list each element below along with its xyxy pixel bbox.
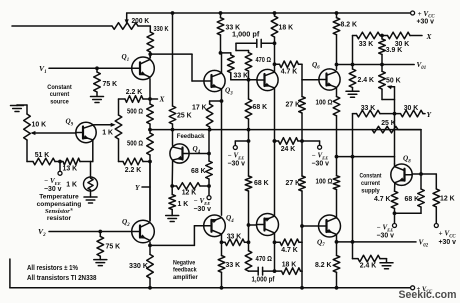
ground below 2.4K upper <box>346 91 359 97</box>
svg-text:1,000 pf: 1,000 pf <box>252 276 276 283</box>
text constant current source <box>47 84 72 106</box>
svg-text:8.2 K: 8.2 K <box>341 21 357 28</box>
label V02 <box>419 239 429 249</box>
node X wire stub <box>148 97 157 101</box>
wire 330K to Q1 collector node <box>148 52 152 58</box>
wire V01 row <box>337 63 415 67</box>
svg-text:All transistors TI 2N338: All transistors TI 2N338 <box>27 275 97 282</box>
label feedback <box>177 133 205 140</box>
svg-text:200 K: 200 K <box>132 18 150 25</box>
svg-text:All resistors ± 1%: All resistors ± 1% <box>27 265 79 272</box>
svg-text:+30 v: +30 v <box>439 239 457 246</box>
wire Q9 collector to 1K wiper <box>93 123 116 127</box>
svg-text:1,000 pf: 1,000 pf <box>232 31 260 38</box>
svg-text:33 K: 33 K <box>227 234 242 241</box>
svg-text:12 K: 12 K <box>182 189 197 196</box>
text tolerance note <box>27 265 97 282</box>
label -VEE center-right <box>312 152 330 168</box>
label Q9 <box>66 118 74 128</box>
wire column to bottom rail <box>300 271 304 290</box>
label Q2 <box>122 218 130 228</box>
node feedback bus left <box>148 128 152 132</box>
label V2 <box>38 227 46 238</box>
wire Q5 emitter column <box>273 89 277 216</box>
resistor 8.2K top <box>333 11 357 69</box>
svg-text:33 K: 33 K <box>361 105 376 112</box>
resistor 33K top-rail <box>217 11 240 53</box>
resistor 27K lower <box>286 176 306 228</box>
resistor 4.7K current supply <box>374 183 398 215</box>
svg-text:25 K: 25 K <box>381 120 396 127</box>
svg-text:100 Ω: 100 Ω <box>316 178 333 185</box>
svg-text:27 K: 27 K <box>286 102 301 109</box>
label node X <box>159 95 166 104</box>
wire coupling row <box>335 114 395 164</box>
svg-text:330 K: 330 K <box>154 26 169 33</box>
wire Q1 collector node to Q3 base <box>150 54 204 81</box>
label -VEE source <box>44 177 62 193</box>
potentiometer 10K <box>24 114 76 140</box>
resistor 33K X-row <box>357 32 381 48</box>
svg-text:51 K: 51 K <box>35 152 50 159</box>
svg-text:Temperature: Temperature <box>39 194 79 201</box>
resistor 2.2K upper <box>119 89 151 102</box>
label Q4 feedback <box>193 145 201 155</box>
resistor 68K upper <box>245 80 267 130</box>
wire Q8 collector <box>394 164 396 167</box>
resistor 17K <box>192 104 213 130</box>
wire Q6 base <box>302 79 319 81</box>
transistor Q4 feedback <box>170 144 189 163</box>
resistor 68K lower <box>245 176 268 227</box>
svg-text:100 Ω: 100 Ω <box>316 100 333 107</box>
label Q4 lower <box>226 214 234 224</box>
svg-text:+30 v: +30 v <box>417 19 435 26</box>
wire Q4 emitter <box>170 160 174 188</box>
node V2 input wire <box>49 230 132 234</box>
resistor 68K current supply <box>395 174 425 213</box>
wire column to 18K lower <box>301 242 303 271</box>
svg-text:33 K: 33 K <box>226 262 241 269</box>
transistor Q5 upper <box>257 69 278 90</box>
resistor 500 ohm upper <box>127 99 153 130</box>
svg-text:68 K: 68 K <box>191 168 206 175</box>
label node Y <box>135 183 141 192</box>
text negative feedback amplifier <box>173 259 198 281</box>
resistor 330K upper <box>147 26 169 52</box>
terminal +VCC top <box>411 10 436 26</box>
svg-text:Constant: Constant <box>47 84 72 91</box>
svg-text:8.2 K: 8.2 K <box>315 262 331 269</box>
svg-text:33 K: 33 K <box>234 73 249 80</box>
svg-text:Constant: Constant <box>360 173 383 180</box>
terminal -VEE source <box>58 162 62 176</box>
svg-text:4.7 K: 4.7 K <box>281 247 297 254</box>
transistor Q5 lower <box>257 214 279 236</box>
transistor Q8 <box>391 164 412 185</box>
wire ladder to Q2 collector <box>149 162 151 221</box>
watermark <box>399 289 457 301</box>
wire 33K-Y column to V02 <box>352 157 354 242</box>
wire Q4 lower collector <box>220 234 224 244</box>
resistor 330K lower <box>129 245 153 287</box>
label V01 <box>417 61 427 71</box>
ground right of 2.4K lower <box>380 259 393 269</box>
wire Q5 base row <box>231 78 257 82</box>
resistor 1K emitter pot <box>102 99 122 139</box>
potentiometer 200K <box>112 13 149 29</box>
svg-text:2.2 K: 2.2 K <box>126 89 142 96</box>
wire top rail <box>127 12 411 14</box>
wire 27K column lower <box>301 141 303 176</box>
resistor 25K bias <box>372 120 421 174</box>
node -VEE tap junction <box>55 160 63 164</box>
resistor 4.7K lower <box>273 239 302 254</box>
svg-text:−30 v: −30 v <box>228 161 246 168</box>
sensistor 1K temperature compensating <box>66 162 97 192</box>
svg-text:amplifier: amplifier <box>173 274 198 281</box>
wire column B to 470 lower <box>248 225 250 251</box>
label Q3 <box>225 87 233 97</box>
svg-text:75 K: 75 K <box>103 81 118 88</box>
resistor 13K <box>63 158 93 172</box>
svg-text:68 K: 68 K <box>253 104 268 111</box>
resistor 30K Y-row <box>395 105 426 117</box>
svg-text:1 K: 1 K <box>178 201 189 208</box>
node V01 at Q6 collector <box>335 63 339 67</box>
resistor 100 ohm lower <box>316 157 340 218</box>
svg-text:17 K: 17 K <box>192 105 207 112</box>
svg-text:330 K: 330 K <box>129 263 148 270</box>
svg-text:500 Ω: 500 Ω <box>127 109 143 116</box>
wire column 17K node down <box>208 130 210 161</box>
wire Q3 emitter <box>220 89 224 103</box>
label -VEE feedback <box>194 197 212 213</box>
transistor Q1 <box>132 57 155 80</box>
wire feedback bus <box>150 128 421 132</box>
resistor 470 ohm upper <box>245 53 271 80</box>
transistor Q6 <box>319 69 340 90</box>
capacitor 1000pf upper <box>232 31 275 47</box>
wire Y-row left <box>353 113 357 115</box>
svg-text:470 Ω: 470 Ω <box>256 57 272 64</box>
wire column B mid <box>247 130 251 176</box>
label Q6 <box>312 61 320 71</box>
resistor 18K lower <box>273 261 302 274</box>
wire 1K bottom to 2.2K lower <box>119 139 124 162</box>
svg-text:13 K: 13 K <box>63 165 78 172</box>
wire top rail to 25K <box>171 11 175 106</box>
potentiometer 50K <box>379 65 401 114</box>
wire X-row left drop <box>353 36 357 65</box>
label -VEE center-left <box>228 152 246 168</box>
svg-text:18 K: 18 K <box>282 261 297 268</box>
wire Q5 lower base <box>249 224 257 226</box>
svg-text:Seekic.com: Seekic.com <box>399 289 457 301</box>
transistor Q3 <box>204 70 225 91</box>
wire 25K column to Q4 collector <box>172 130 174 146</box>
node 3.9K junction <box>380 34 388 38</box>
resistor 2.2K lower <box>123 158 152 174</box>
transistor Q7 <box>319 215 341 237</box>
resistor 33K horizontal lower <box>222 234 251 246</box>
svg-text:Feedback: Feedback <box>177 133 205 140</box>
wire bottom rail <box>10 259 411 290</box>
transistor Q4 lower <box>204 215 226 237</box>
resistor 12K current supply <box>433 174 455 223</box>
svg-text:1 K: 1 K <box>102 130 113 137</box>
resistor 33K Q5 base <box>221 53 249 80</box>
svg-text:10 K: 10 K <box>32 122 47 129</box>
label V1 <box>39 64 47 75</box>
svg-text:−30 v: −30 v <box>312 161 330 168</box>
resistor 24K <box>273 138 304 153</box>
terminal -VEE center-left <box>233 141 248 150</box>
resistor 25K vertical <box>169 106 191 130</box>
wire Q5 collector <box>273 43 277 71</box>
resistor 1K feedback <box>169 186 188 210</box>
label Q1 <box>122 53 130 63</box>
ground above 10K <box>11 105 28 114</box>
resistor 51K <box>27 140 55 165</box>
svg-text:24 K: 24 K <box>281 146 296 153</box>
wire 200K to 330K <box>138 26 150 32</box>
ground below 1K feedback <box>166 210 179 222</box>
resistor 4.7K upper <box>275 61 303 80</box>
capacitor 1000pf lower <box>249 267 276 283</box>
svg-text:27 K: 27 K <box>286 180 301 187</box>
wire Q7 base <box>302 225 318 227</box>
resistor 75K input 1 <box>94 68 117 92</box>
wire input top-left <box>12 25 112 27</box>
svg-text:68 K: 68 K <box>254 180 269 187</box>
svg-text:68 K: 68 K <box>405 196 420 203</box>
svg-text:2.4 K: 2.4 K <box>358 77 374 84</box>
terminal +VCC current supply <box>434 224 438 228</box>
wire Q3 collector <box>219 51 223 73</box>
svg-text:source: source <box>50 99 69 106</box>
svg-text:30 K: 30 K <box>404 105 419 112</box>
wire Q9 emitter <box>92 140 94 161</box>
svg-text:resistor: resistor <box>47 215 72 222</box>
wire cap node left corner <box>236 43 249 52</box>
resistor 33K Y-row <box>357 105 397 117</box>
svg-text:1 K: 1 K <box>66 182 77 189</box>
resistor 30K X-row <box>388 32 423 48</box>
terminal -VEE current supply <box>393 213 397 227</box>
svg-text:33 K: 33 K <box>359 41 374 48</box>
svg-text:3.9 K: 3.9 K <box>386 47 402 54</box>
resistor 18K top <box>271 11 293 45</box>
resistor 8.2K lower <box>315 255 340 289</box>
svg-text:470 Ω: 470 Ω <box>256 256 273 263</box>
svg-text:current: current <box>50 91 70 98</box>
svg-text:2.2 K: 2.2 K <box>125 167 141 174</box>
resistor 75K input 2 <box>97 232 120 257</box>
svg-text:4.7 K: 4.7 K <box>281 69 297 76</box>
label X output <box>426 32 433 41</box>
wire Q4 base row <box>189 152 211 156</box>
resistor 68K feedback <box>191 161 212 186</box>
svg-text:4.7 K: 4.7 K <box>374 196 390 203</box>
label +VCC current supply <box>439 230 457 246</box>
wire Q2 collector <box>149 162 151 222</box>
svg-text:2.4 K: 2.4 K <box>360 263 376 270</box>
label Y output <box>427 110 433 119</box>
wire 27K column to 4.7K lower <box>301 226 303 242</box>
text constant current supply <box>360 173 383 195</box>
resistor 470 ohm lower <box>245 251 272 271</box>
resistor 500 ohm lower <box>127 130 153 162</box>
transistor Q2 <box>132 220 155 243</box>
wire Q7 emitter <box>335 235 339 256</box>
resistor 2.4K lower <box>353 242 387 270</box>
resistor 12K feedback <box>172 183 211 197</box>
svg-text:Sensistor®: Sensistor® <box>45 207 74 215</box>
wire Q1 collector <box>149 54 151 58</box>
wire Q2 emitter <box>148 242 152 247</box>
resistor 100 ohm upper <box>316 88 340 157</box>
svg-text:25 K: 25 K <box>177 113 192 120</box>
wire V02 row <box>337 240 417 244</box>
svg-text:supply: supply <box>361 187 380 194</box>
ground below 75K-2 <box>94 256 107 265</box>
wire Q8 base row <box>412 172 436 176</box>
svg-text:current: current <box>361 180 381 187</box>
label -VEE current supply <box>377 224 395 240</box>
terminal -VEE feedback <box>207 186 211 200</box>
resistor 3.9K <box>379 36 403 65</box>
wire 33K-Y column <box>352 114 354 157</box>
node Y wire stub <box>142 186 150 188</box>
svg-text:75 K: 75 K <box>106 244 121 251</box>
node V1 input wire <box>49 66 132 70</box>
svg-text:−30 v: −30 v <box>44 186 62 193</box>
svg-text:Negative: Negative <box>173 259 195 266</box>
wire Q2 emitter to Q4 base <box>150 226 204 246</box>
label Q7 <box>317 238 325 248</box>
resistor 2.4K upper <box>349 65 374 92</box>
terminal +VCC bottom <box>411 286 433 294</box>
wire 17K jog <box>210 101 222 104</box>
svg-text:−30 v: −30 v <box>377 233 395 240</box>
svg-text:50 K: 50 K <box>386 78 401 85</box>
resistor 33K vertical lower <box>218 242 240 287</box>
svg-text:18 K: 18 K <box>279 25 294 32</box>
wire Q1 emitter to node X <box>149 79 151 99</box>
svg-text:−30 v: −30 v <box>194 206 212 213</box>
text temperature compensating sensistor resistor <box>37 194 82 222</box>
svg-text:500 Ω: 500 Ω <box>127 141 143 148</box>
wire Q3 emitter column to Q4 emitter <box>221 101 223 215</box>
svg-text:12 K: 12 K <box>440 195 455 202</box>
ground below sensistor <box>84 191 97 203</box>
resistor 27K upper <box>286 80 306 141</box>
label Q8 <box>403 155 411 165</box>
wire Q5 lower collector <box>274 233 276 271</box>
ground below 75K-1 <box>91 92 104 103</box>
transistor Q9 <box>76 122 96 142</box>
svg-text:feedback: feedback <box>173 267 197 274</box>
terminal -VEE center-right <box>302 141 322 149</box>
